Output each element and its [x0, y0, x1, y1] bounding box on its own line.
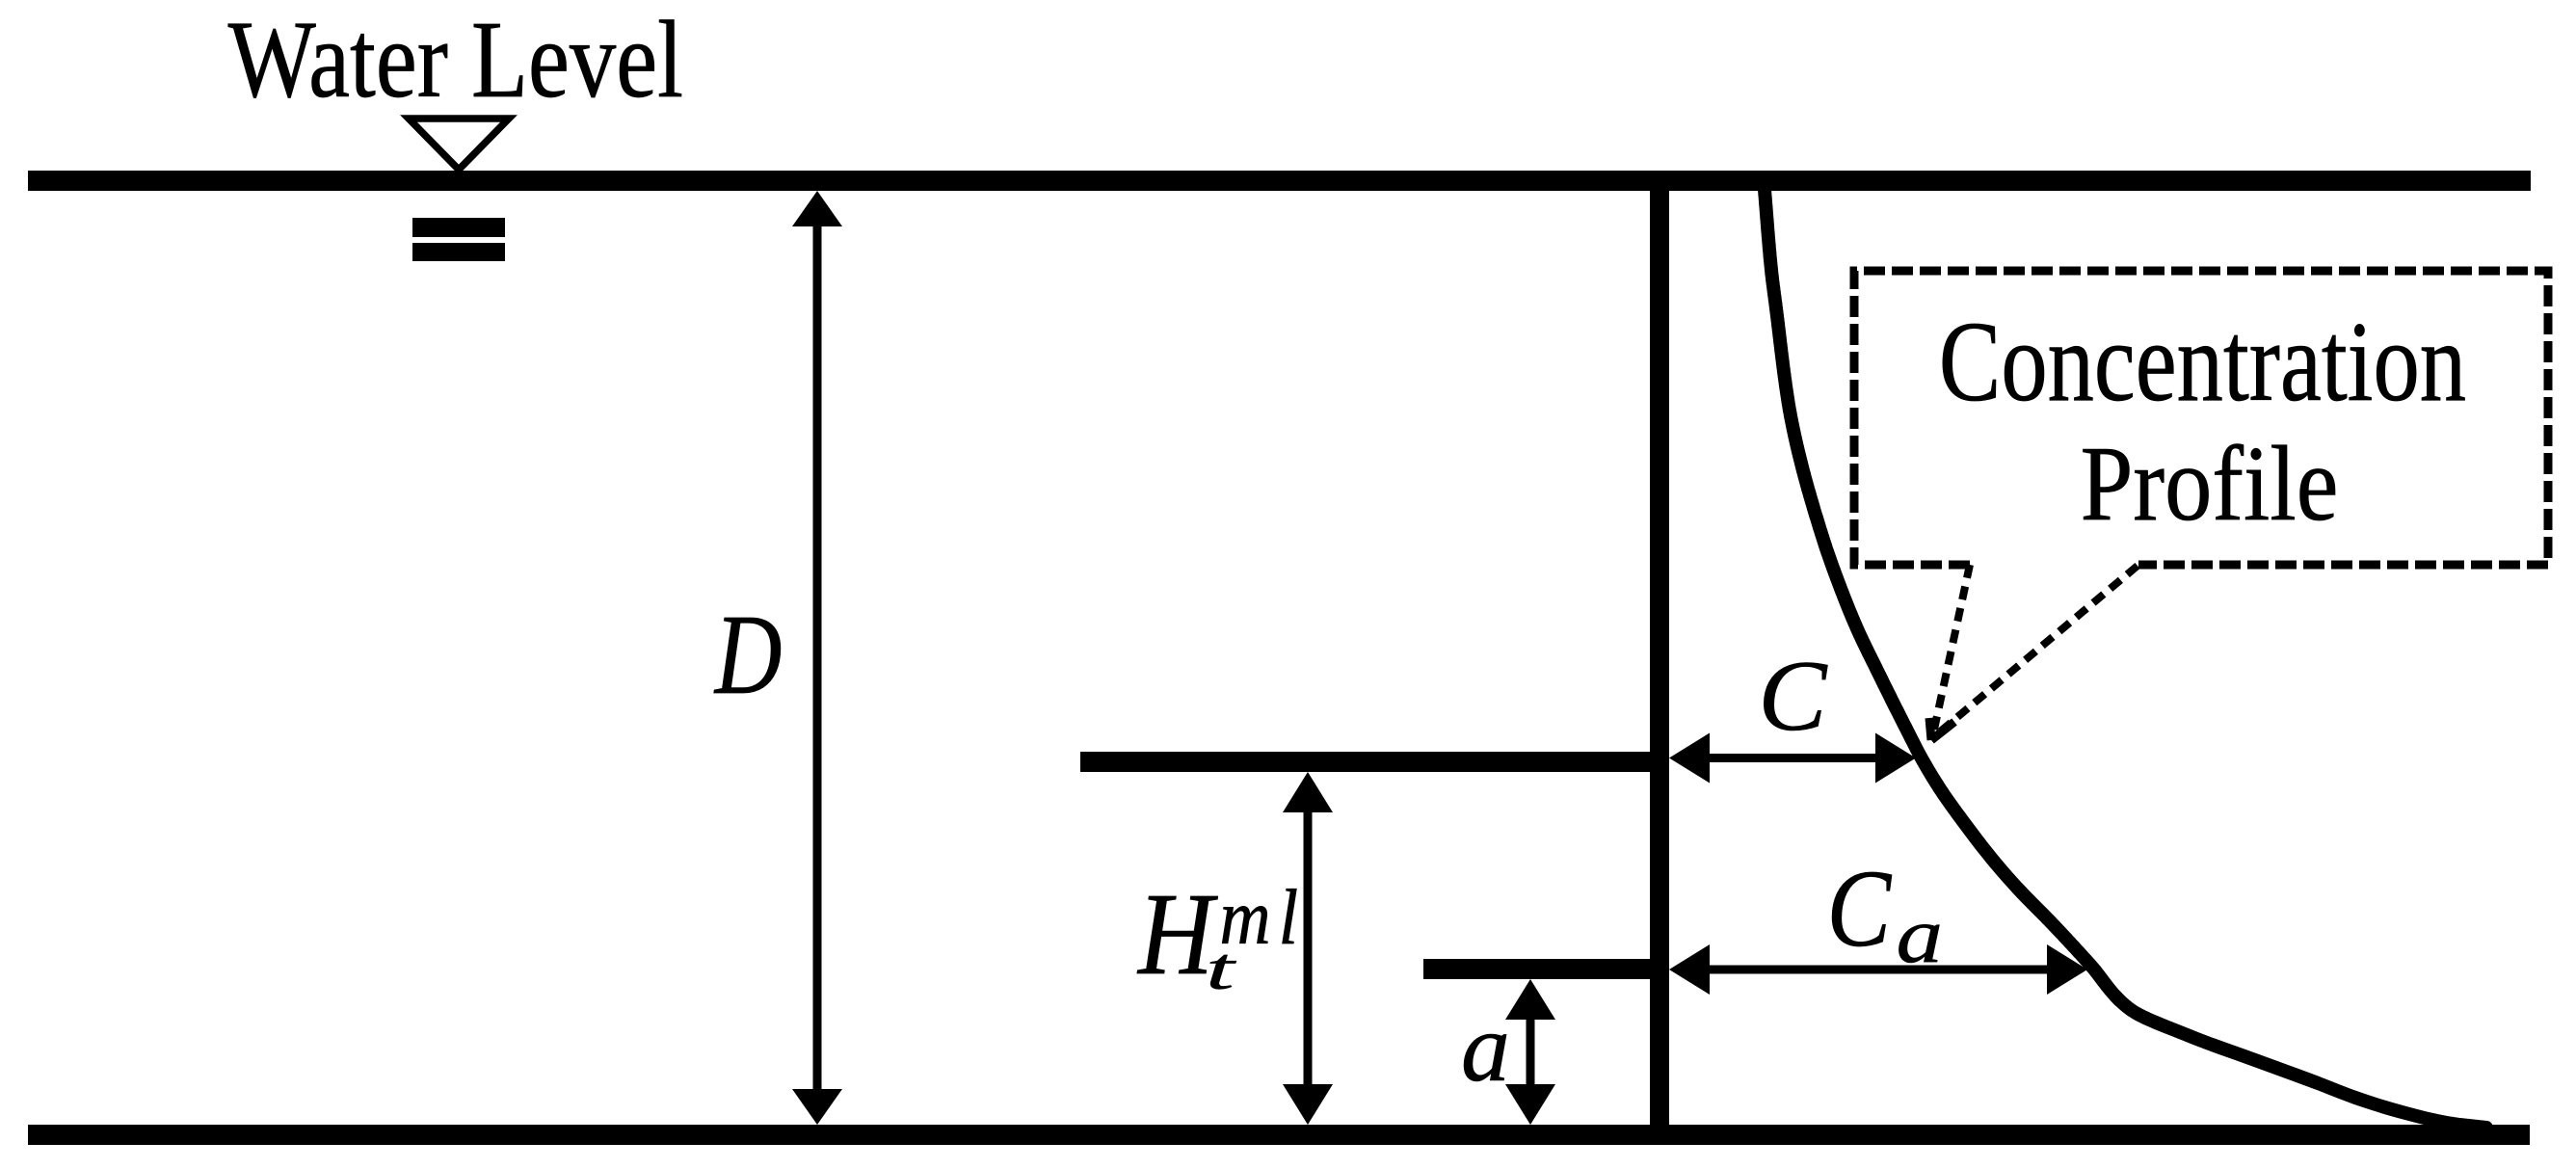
svg-text:Water Level: Water Level: [228, 0, 683, 120]
svg-text:Profile: Profile: [2081, 423, 2339, 543]
svg-text:D: D: [713, 593, 782, 719]
svg-text:C: C: [1758, 640, 1828, 752]
svg-text:a: a: [1461, 994, 1510, 1103]
svg-text:C: C: [1827, 848, 1893, 970]
svg-text:a: a: [1897, 891, 1944, 980]
svg-text:Concentration: Concentration: [1939, 300, 2466, 426]
svg-text:ml: ml: [1220, 873, 1306, 961]
